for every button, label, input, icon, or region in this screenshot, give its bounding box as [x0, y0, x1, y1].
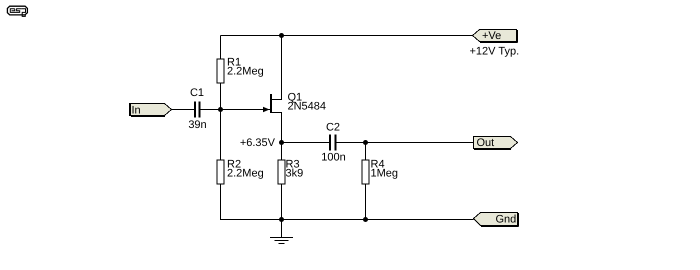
- transistor Q1: [271, 36, 282, 143]
- svg-text:2.2Meg: 2.2Meg: [227, 66, 264, 78]
- wire R2 top: [220, 110, 222, 161]
- svg-text:3k9: 3k9: [286, 168, 304, 180]
- svg-text:39n: 39n: [188, 119, 206, 131]
- junction node R4 bottom: [363, 217, 368, 222]
- junction node C2 / R4: [363, 140, 368, 145]
- wire In tag to C1: [172, 109, 195, 111]
- wire R4 top: [365, 143, 367, 161]
- ESP logo: [7, 6, 27, 16]
- power tag +Ve: [473, 30, 518, 43]
- resistor R2: [217, 160, 224, 184]
- ground: [270, 220, 293, 244]
- svg-text:C1: C1: [190, 87, 204, 99]
- svg-text:2N5484: 2N5484: [288, 101, 327, 113]
- wire C1 to gate of Q1: [201, 109, 271, 111]
- wire source node to C2: [282, 142, 330, 144]
- port tag In: [130, 104, 172, 117]
- svg-text:100n: 100n: [321, 151, 345, 163]
- junction node Q1 drain / top rail: [279, 33, 284, 38]
- wire bottom rail (Gnd): [282, 219, 474, 221]
- wire R3 bottom: [281, 184, 283, 220]
- resistor R3: [278, 160, 285, 184]
- svg-text:+6.35V: +6.35V: [240, 137, 276, 149]
- svg-text:+12V Typ.: +12V Typ.: [470, 45, 520, 57]
- wire top rail (+Ve): [221, 35, 473, 37]
- junction node Q1 source / R3 / C2: [279, 140, 284, 145]
- wire R3 top: [281, 143, 283, 161]
- svg-text:+Ve: +Ve: [482, 30, 501, 42]
- svg-text:2.2Meg: 2.2Meg: [227, 168, 264, 180]
- svg-text:Gnd: Gnd: [496, 214, 517, 226]
- capacitor C2: [330, 135, 336, 151]
- junction node ground / R3 bottom: [279, 217, 284, 222]
- transistor Q1 gate arrow: [263, 107, 270, 113]
- power tag Gnd: [474, 213, 519, 227]
- wire C2 to Out tag: [337, 142, 474, 144]
- svg-text:In: In: [132, 104, 141, 116]
- svg-text:Out: Out: [477, 137, 495, 149]
- port tag Out: [474, 137, 518, 150]
- svg-text:1Meg: 1Meg: [371, 168, 399, 180]
- resistor R4: [362, 160, 369, 184]
- wire R1 bottom: [220, 83, 222, 110]
- wire R1 top: [220, 36, 222, 60]
- junction node C1/R1/R2: [218, 107, 223, 112]
- wire R2 bottom to bottom rail: [221, 184, 282, 220]
- svg-text:C2: C2: [326, 121, 340, 133]
- capacitor C1: [195, 102, 200, 118]
- wire R4 bottom: [365, 184, 367, 220]
- resistor R1: [217, 59, 224, 83]
